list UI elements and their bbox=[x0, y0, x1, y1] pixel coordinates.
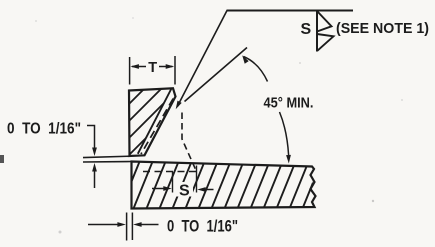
upper plate outline (beveled vertical plate) bbox=[129, 88, 176, 156]
label 45 deg MIN bbox=[264, 95, 314, 112]
T dimension line with arrows bbox=[130, 64, 174, 69]
bottom gap extension line right bbox=[131, 213, 133, 241]
weld symbol upper triangle (groove) bbox=[317, 11, 332, 32]
upper plate bevel inner edge bbox=[138, 89, 171, 154]
dimension arc lower segment for 45 deg angle bbox=[280, 112, 291, 164]
label 0 TO 1/16 inch (bottom gap) bbox=[167, 218, 238, 236]
label 0 TO 1/16 inch (left gap) bbox=[7, 121, 81, 138]
svg-text:45° MIN.: 45° MIN. bbox=[264, 95, 314, 112]
scan artifact smudge at left edge bbox=[0, 155, 4, 163]
wire : leader line from joint to weld symbol reference line bbox=[176, 11, 227, 110]
lower plate hatching bbox=[120, 158, 324, 211]
dashed weld penetration line inside lower plate bbox=[143, 171, 197, 173]
wire : 45-degree bevel angle line bbox=[185, 48, 248, 102]
bottom gap right arrow bbox=[133, 222, 158, 227]
S dimension arrows bbox=[152, 186, 214, 192]
svg-text:S: S bbox=[301, 21, 312, 38]
dashed hidden weld root line bbox=[182, 113, 197, 172]
gap extension line upper (bottom face of vertical plate) bbox=[83, 156, 130, 157]
S dimension right extension line bbox=[196, 166, 198, 193]
svg-text:(SEE NOTE 1): (SEE NOTE 1) bbox=[336, 20, 429, 37]
svg-text:S: S bbox=[179, 183, 190, 200]
dashed weld centerline on bevel face bbox=[141, 99, 173, 155]
extension line right of T dimension bbox=[174, 56, 176, 85]
svg-text:0 TO 1/16": 0 TO 1/16" bbox=[7, 121, 81, 138]
gap extension line lower (top face of lower plate) bbox=[83, 161, 132, 164]
extension line left of T dimension bbox=[129, 57, 131, 85]
weld symbol reference line bbox=[227, 10, 354, 12]
label T bbox=[148, 60, 157, 76]
weld symbol lower triangle (fillet) bbox=[317, 34, 334, 51]
dimension arc upper segment for 45 deg angle bbox=[242, 55, 267, 81]
label (SEE NOTE 1) bbox=[336, 20, 429, 37]
svg-text:T: T bbox=[148, 60, 157, 76]
lower horizontal plate outline with break line on right bbox=[132, 162, 316, 209]
label S (weld size in plate) bbox=[179, 183, 190, 200]
white backing for S label bbox=[176, 182, 193, 197]
bottom gap left arrow bbox=[88, 222, 126, 227]
left gap lower arrow bbox=[92, 163, 97, 188]
S dimension left extension line bbox=[172, 172, 174, 193]
svg-text:0 TO 1/16": 0 TO 1/16" bbox=[167, 218, 238, 236]
weld symbol vertical leg bbox=[316, 10, 318, 52]
label S : weld size on symbol bbox=[301, 21, 312, 38]
bottom gap extension line left bbox=[126, 213, 128, 241]
upper plate hatching bbox=[73, 80, 204, 160]
leader elbow for left gap bbox=[87, 126, 97, 157]
